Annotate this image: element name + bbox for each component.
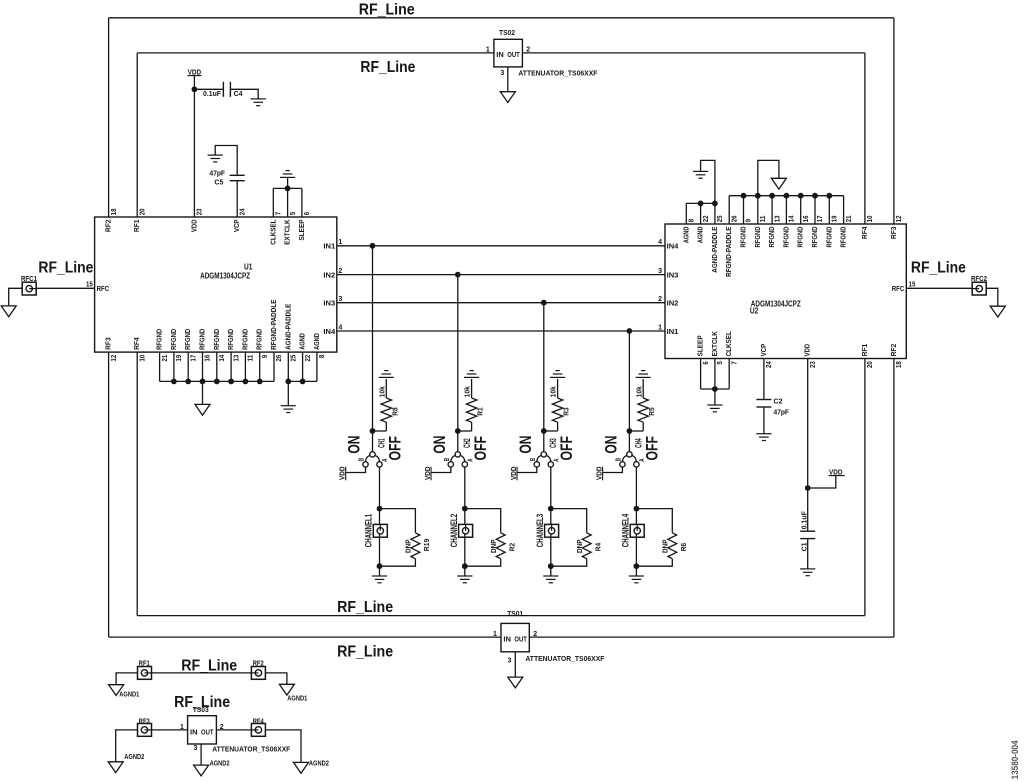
ground above R1 (bars up)	[464, 371, 479, 378]
wire inner top RF_Line right of TS02	[522, 52, 865, 54]
wire U2 RFGND pin stub x=815.0	[814, 196, 816, 224]
junction U1 AGND bus	[285, 379, 291, 385]
junction CHANNEL4 top	[634, 506, 640, 512]
wire U2 RF2 pin18 riser (outer bottom right)	[893, 359, 895, 638]
wire CHANNEL2 ground stub	[464, 566, 466, 576]
svg-text:10: 10	[867, 215, 874, 222]
svg-text:3: 3	[507, 657, 511, 664]
connector RF3	[138, 724, 152, 737]
junction U2 RFGND bus	[784, 193, 790, 199]
svg-text:9: 9	[262, 355, 269, 358]
svg-text:R5: R5	[647, 407, 656, 415]
svg-text:C5: C5	[214, 178, 223, 187]
svg-text:13: 13	[774, 215, 781, 222]
svg-text:VCP: VCP	[759, 344, 768, 357]
junction IN3 tap CH3	[541, 300, 547, 306]
junction U1 clock tie	[285, 186, 291, 192]
wire CHANNEL1 to ground node	[379, 534, 381, 566]
svg-text:ADGM1304JCPZ: ADGM1304JCPZ	[751, 300, 801, 309]
connector RFC1	[22, 282, 36, 295]
wire outer bottom RF_Line left of TS01	[109, 636, 501, 638]
ground TS01 (triangle)	[508, 677, 523, 688]
wire inner top RF_Line left of TS02	[137, 52, 494, 54]
svg-text:RFC: RFC	[97, 284, 110, 293]
svg-text:21: 21	[162, 355, 169, 362]
ground above R5 (bars up)	[636, 371, 651, 378]
svg-text:RF_Line: RF_Line	[337, 643, 393, 660]
junction U2 RFGND bus	[812, 193, 818, 199]
wire U1 RFGND pin stub x=202.5	[202, 352, 204, 381]
wire IN3 net U1 to U2	[337, 302, 665, 304]
connector RF2	[251, 667, 265, 680]
wire U2 RFGND up-and-over to ground	[758, 160, 779, 195]
capacitor C5	[230, 175, 245, 180]
svg-text:24: 24	[766, 361, 773, 368]
svg-text:U1: U1	[244, 263, 253, 272]
svg-text:RFC1: RFC1	[21, 276, 37, 283]
wire	[464, 509, 466, 528]
wire CH2 A throw down	[464, 467, 466, 509]
wire U1 RFGND bus	[160, 380, 274, 382]
svg-text:17: 17	[817, 215, 824, 222]
svg-text:ON: ON	[602, 436, 621, 454]
ground above R8 (bars up)	[379, 371, 394, 378]
svg-text:A: A	[639, 459, 646, 462]
svg-text:CHANNEL2: CHANNEL2	[449, 514, 459, 547]
wire U1 AGND bus	[288, 380, 317, 382]
wire	[385, 422, 387, 431]
ground AGND2 left (triangle)	[108, 762, 123, 773]
junction U2 RFGND bus	[826, 193, 832, 199]
wire	[471, 422, 473, 431]
svg-text:DNP: DNP	[661, 540, 670, 554]
svg-text:25: 25	[291, 355, 298, 362]
svg-text:25: 25	[717, 215, 724, 222]
svg-text:DNP: DNP	[575, 540, 584, 554]
svg-text:IN: IN	[496, 50, 504, 59]
svg-text:CLKSEL: CLKSEL	[268, 219, 277, 245]
wire CH1 from IN1 down	[372, 246, 374, 431]
wire CH1 A throw down	[379, 467, 381, 509]
wire U1 SLEEP pin6 stub	[301, 188, 303, 217]
wire CHANNEL3 to ground node	[550, 534, 552, 566]
wire CH2 to R1	[458, 430, 472, 432]
junction CH2 switch node	[455, 428, 461, 434]
svg-text:10k: 10k	[549, 385, 558, 397]
svg-text:3: 3	[500, 70, 504, 77]
wire U2 RFGND pin stub x=843.6	[843, 196, 845, 224]
svg-text:RFGND-PADDLE: RFGND-PADDLE	[724, 227, 733, 277]
wire U2 RFGND pin stub x=786.4	[785, 196, 787, 224]
svg-text:IN4: IN4	[323, 327, 336, 336]
wire RF2 to AGND1	[265, 673, 287, 684]
svg-text:6: 6	[304, 212, 311, 215]
wire U2 AGND tie	[686, 202, 715, 204]
junction U1 AGND bus	[300, 379, 306, 385]
svg-text:13: 13	[233, 355, 240, 362]
svg-text:11: 11	[760, 215, 767, 222]
junction U2 AGND tie	[712, 201, 718, 207]
svg-text:IN1: IN1	[667, 327, 679, 336]
svg-text:OUT: OUT	[514, 634, 527, 643]
wire CH4 B throw to VDD	[603, 467, 623, 473]
svg-text:RFGND: RFGND	[824, 226, 833, 247]
svg-text:CLKSEL: CLKSEL	[724, 331, 733, 357]
svg-text:47pF: 47pF	[774, 408, 790, 417]
wire U1 clock tie	[273, 187, 302, 189]
svg-text:RFGND: RFGND	[240, 328, 249, 349]
ground above R3 (bars up)	[550, 371, 565, 378]
svg-text:TS03: TS03	[193, 705, 209, 714]
svg-text:VCP: VCP	[232, 220, 241, 233]
ground CHANNEL4 (bars)	[629, 576, 644, 583]
wire	[379, 509, 381, 528]
wire U1 RFGND pin stub x=159.6	[159, 352, 161, 381]
wire CH3 B throw to VDD	[517, 467, 537, 473]
wire U2 RF4 pin10 riser (inner RF_Line right)	[864, 53, 866, 224]
svg-text:RF1: RF1	[860, 344, 869, 357]
svg-text:15: 15	[909, 281, 916, 288]
svg-text:24: 24	[239, 208, 246, 215]
wire outer bottom RF_Line right of TS01	[529, 636, 894, 638]
svg-text:AGND: AGND	[312, 333, 321, 350]
resistor R5 10k	[638, 398, 648, 422]
op IC U1 ADGM1304JCPZ body	[95, 217, 337, 352]
wire CH4 A throw down	[635, 467, 637, 509]
svg-text:AGND1: AGND1	[287, 693, 307, 702]
wire R3 to ground	[557, 379, 559, 398]
svg-text:AGND: AGND	[298, 333, 307, 350]
junction CHANNEL3 bottom	[548, 563, 554, 569]
wire CHANNEL4 ground stub	[635, 566, 637, 576]
svg-text:3: 3	[658, 268, 662, 275]
svg-text:U2: U2	[750, 306, 759, 315]
wire RF1-RF2 RF_Line	[152, 672, 252, 674]
svg-text:10: 10	[139, 355, 146, 362]
svg-text:4: 4	[658, 239, 662, 246]
wire R8 to ground	[385, 379, 387, 398]
svg-text:OFF: OFF	[643, 436, 662, 461]
svg-text:ON: ON	[430, 436, 449, 454]
wire DNP branch CH2 top	[465, 509, 501, 533]
svg-text:1: 1	[658, 324, 662, 331]
junction U2 AGND tie	[698, 201, 704, 207]
ground TS02 (triangle)	[500, 92, 515, 103]
junction CH4 switch node	[627, 428, 633, 434]
connector CHANNEL2	[459, 524, 473, 537]
wire CH3 A throw down	[550, 467, 552, 509]
wire U2 EXTCLK pin5 stub	[714, 359, 716, 390]
switch CH1 SPDT	[363, 452, 382, 467]
junction VDD / C4	[192, 86, 198, 92]
wire RFC1 to U1 RFC pin15	[36, 287, 94, 289]
resistor R19 DNP	[411, 533, 420, 559]
wire U1 RFGND pin stub x=245.4	[244, 352, 246, 381]
wire	[557, 422, 559, 431]
svg-text:3: 3	[338, 296, 342, 303]
wire U2 RFGND pin stub x=729.2	[728, 196, 730, 224]
svg-text:15: 15	[86, 281, 93, 288]
svg-text:8: 8	[689, 219, 696, 222]
svg-text:ON: ON	[345, 436, 364, 454]
svg-text:RFGND: RFGND	[155, 328, 164, 349]
connector RF1	[138, 667, 152, 680]
resistor R1 10k	[466, 398, 476, 422]
wire TS03 pin2 to RF4	[216, 729, 251, 731]
junction CH3 switch node	[541, 428, 547, 434]
ground U2 AGND (bars)	[693, 171, 708, 178]
wire U2 AGND up-and-over to ground	[701, 160, 715, 203]
svg-text:DNP: DNP	[489, 540, 498, 554]
svg-text:R4: R4	[594, 542, 603, 551]
svg-text:B: B	[359, 458, 366, 461]
wire CHANNEL3 ground stub	[550, 566, 552, 576]
svg-text:6: 6	[703, 361, 710, 364]
wire U1 RF4 pin10 riser (inner bottom left)	[136, 352, 138, 615]
wire CH2 B throw to VDD	[431, 467, 451, 473]
svg-text:AGND: AGND	[681, 226, 690, 243]
wire	[642, 422, 644, 431]
svg-text:RFGND: RFGND	[810, 226, 819, 247]
svg-text:AGND2: AGND2	[309, 759, 329, 768]
junction U2 clock tie	[712, 386, 718, 392]
junction CHANNEL2 top	[462, 506, 468, 512]
wire U2 clock tie to ground	[714, 389, 716, 405]
svg-text:18: 18	[111, 208, 118, 215]
ground U1 RFGND (triangle)	[195, 404, 210, 415]
svg-text:RF4: RF4	[253, 718, 264, 725]
wire CH4 from IN4 down	[628, 331, 630, 431]
wire U1 RFGND pin stub x=188.2	[187, 352, 189, 381]
svg-text:IN3: IN3	[323, 299, 335, 308]
svg-text:RFGND: RFGND	[212, 328, 221, 349]
svg-text:16: 16	[803, 215, 810, 222]
svg-text:18: 18	[896, 361, 903, 368]
wire U1 CLKSEL pin7 stub	[272, 188, 274, 217]
svg-text:RFC2: RFC2	[971, 276, 987, 283]
ground at C2 (bars)	[756, 434, 771, 441]
wire DNP branch CH2 bottom	[465, 559, 501, 567]
wire RFC2 to ground	[986, 288, 998, 306]
wire U2 CLKSEL pin7 stub	[728, 359, 730, 390]
ground AGND1 left (triangle)	[109, 685, 124, 696]
svg-text:13580-004: 13580-004	[1010, 740, 1021, 780]
wire to VDD net label	[808, 476, 836, 488]
junction U1 RFGND bus	[171, 379, 177, 385]
wire U2 AGND pin22 stub	[700, 203, 702, 224]
attenuator TS02 body	[494, 39, 523, 67]
junction CHANNEL1 bottom	[377, 563, 383, 569]
svg-text:CHANNEL3: CHANNEL3	[535, 514, 545, 547]
svg-text:RF4: RF4	[860, 226, 869, 239]
resistor R2 DNP	[496, 533, 505, 559]
wire U1 RFGND pin stub x=259.7	[259, 352, 261, 381]
ground at C5 (bars)	[208, 155, 223, 162]
wire C2 to ground	[763, 407, 765, 434]
wire U2 RFGND pin stub x=772.1	[771, 196, 773, 224]
svg-text:A: A	[554, 459, 561, 462]
svg-text:26: 26	[731, 215, 738, 222]
wire U2 RFGND pin stub x=757.8	[757, 196, 759, 224]
svg-text:9: 9	[746, 219, 753, 222]
svg-text:20: 20	[867, 361, 874, 368]
svg-text:0.1uF: 0.1uF	[800, 511, 809, 529]
svg-text:AGND2: AGND2	[210, 759, 230, 768]
svg-text:RF1: RF1	[132, 220, 141, 233]
wire CH2 from IN2 down	[457, 275, 459, 431]
wire C5 to ground	[215, 146, 237, 176]
svg-text:10k: 10k	[377, 385, 386, 397]
wire U1 RFGND pin stub x=216.8	[216, 352, 218, 381]
svg-text:47pF: 47pF	[210, 168, 226, 177]
wire DNP branch CH3 bottom	[551, 559, 587, 567]
wire U2 AGND pin25 stub	[714, 203, 716, 224]
wire CHANNEL2 to ground node	[464, 534, 466, 566]
svg-text:RF_Line: RF_Line	[911, 259, 966, 276]
wire U1 RFGND to ground	[202, 381, 204, 404]
svg-text:IN1: IN1	[323, 242, 335, 251]
wire DNP branch CH1 bottom	[380, 559, 416, 567]
svg-text:C4: C4	[234, 89, 244, 98]
attenuator TS03 body	[188, 716, 217, 744]
wire inner bottom RF_Line	[137, 615, 865, 617]
svg-text:8: 8	[319, 355, 326, 358]
wire CH1 to R8	[373, 430, 387, 432]
junction U1 RFGND bus	[185, 379, 191, 385]
svg-text:AGND-PADDLE: AGND-PADDLE	[710, 227, 719, 273]
junction IN1 tap CH1	[370, 243, 376, 249]
svg-text:RF2: RF2	[889, 344, 898, 357]
svg-text:R6: R6	[679, 543, 688, 551]
junction U1 RFGND bus	[228, 379, 234, 385]
ground at RFC2 (triangle)	[990, 306, 1005, 317]
junction CH1 switch node	[370, 428, 376, 434]
svg-text:B: B	[530, 458, 537, 461]
svg-text:12: 12	[896, 215, 903, 222]
wire CH1 switch common	[372, 431, 374, 452]
ground U1 AGND (bars)	[281, 406, 296, 413]
wire	[635, 509, 637, 528]
wire U2 RFGND pin stub x=800.7	[800, 196, 802, 224]
svg-text:2: 2	[338, 268, 342, 275]
ground U2 RFGND (triangle)	[771, 178, 786, 189]
svg-text:R8: R8	[390, 407, 399, 415]
svg-text:IN3: IN3	[667, 271, 679, 280]
wire RF4 to AGND2	[265, 730, 301, 763]
svg-text:RFGND: RFGND	[198, 328, 207, 349]
switch CH2 SPDT	[448, 452, 467, 467]
svg-text:CHANNEL4: CHANNEL4	[620, 514, 630, 547]
svg-text:1: 1	[338, 239, 342, 246]
wire RFC2 to U2 RFC pin15	[906, 287, 972, 289]
wire CH4 to R5	[629, 430, 643, 432]
svg-text:SLEEP: SLEEP	[696, 335, 705, 356]
svg-text:R3: R3	[562, 407, 571, 415]
svg-text:21: 21	[846, 215, 853, 222]
svg-text:1: 1	[486, 47, 490, 54]
junction U2 RFGND bus	[769, 193, 775, 199]
svg-text:RFGND: RFGND	[753, 226, 762, 247]
svg-text:17: 17	[190, 355, 197, 362]
svg-text:2: 2	[526, 47, 530, 54]
svg-text:4: 4	[338, 324, 342, 331]
ground at C4 (bars)	[251, 99, 266, 106]
svg-text:RFGND: RFGND	[169, 328, 178, 349]
svg-text:AGND: AGND	[696, 226, 705, 243]
wire IN1 net U1 to U2	[337, 245, 665, 247]
junction IN4 tap CH4	[627, 328, 633, 334]
svg-text:AGND-PADDLE: AGND-PADDLE	[283, 304, 292, 350]
op IC U2 ADGM1304JCPZ body	[665, 224, 906, 359]
wire IN2 net U1 to U2	[337, 274, 665, 276]
svg-text:19: 19	[832, 215, 839, 222]
resistor R6 DNP	[668, 533, 677, 559]
svg-text:VDD: VDD	[803, 343, 812, 356]
ground AGND1 right (triangle)	[279, 684, 294, 695]
svg-text:B: B	[444, 458, 451, 461]
wire CH3 switch common	[543, 431, 545, 452]
svg-text:A: A	[382, 459, 389, 462]
svg-text:ADGM1304JCPZ: ADGM1304JCPZ	[200, 271, 250, 280]
wire RF1 to AGND1	[116, 673, 137, 685]
resistor R4 DNP	[582, 533, 591, 559]
svg-text:VDD: VDD	[189, 219, 198, 232]
ground AGND2 right (triangle)	[294, 762, 309, 773]
svg-text:RF4: RF4	[132, 337, 141, 350]
svg-text:7: 7	[731, 361, 738, 364]
svg-text:11: 11	[248, 355, 255, 362]
ground U2 clock tie (bars)	[707, 405, 722, 412]
wire RFC1 to ground	[9, 288, 23, 306]
resistor R3 10k	[552, 398, 562, 422]
svg-text:22: 22	[703, 215, 710, 222]
svg-text:7: 7	[276, 212, 283, 215]
ground CHANNEL1 (bars)	[372, 576, 387, 583]
svg-text:TS01: TS01	[507, 609, 523, 618]
junction CHANNEL1 top	[377, 506, 383, 512]
svg-text:1: 1	[493, 631, 497, 638]
wire U1 RFGND pin stub x=173.9	[173, 352, 175, 381]
svg-text:RFGND: RFGND	[781, 226, 790, 247]
wire U2 AGND pin8 stub	[685, 203, 687, 224]
ground CHANNEL3 (bars)	[543, 576, 558, 583]
resistor R8 10k	[381, 398, 391, 422]
junction U2 RFGND bus	[741, 193, 747, 199]
svg-text:OFF: OFF	[471, 436, 490, 461]
wire VDD to U1 pin 23	[193, 76, 195, 217]
svg-text:RFGND: RFGND	[226, 328, 235, 349]
wire C4 to ground	[230, 89, 258, 99]
svg-text:RFGND-PADDLE: RFGND-PADDLE	[269, 300, 278, 350]
wire U1 RF1 pin20 riser (inner RF_Line left)	[136, 53, 138, 217]
svg-text:RFC: RFC	[892, 284, 905, 293]
svg-text:R1: R1	[476, 407, 485, 415]
ground at C1 (bars)	[800, 569, 815, 576]
wire U2 RFGND pin stub x=829.3	[828, 196, 830, 224]
wire CH3 to R3	[544, 430, 558, 432]
junction U1 RFGND bus	[257, 379, 263, 385]
wire U1 RFGND pin stub x=274.0	[273, 352, 275, 381]
svg-text:RFGND: RFGND	[739, 226, 748, 247]
wire U1 clock tie to ground	[287, 177, 289, 188]
svg-text:TS02: TS02	[499, 28, 515, 37]
svg-text:SLEEP: SLEEP	[297, 220, 306, 241]
wire R1 to ground	[471, 379, 473, 398]
svg-text:23: 23	[810, 361, 817, 368]
wire CHANNEL1 ground stub	[379, 566, 381, 576]
svg-text:RFGND: RFGND	[255, 328, 264, 349]
svg-text:RFGND: RFGND	[767, 226, 776, 247]
